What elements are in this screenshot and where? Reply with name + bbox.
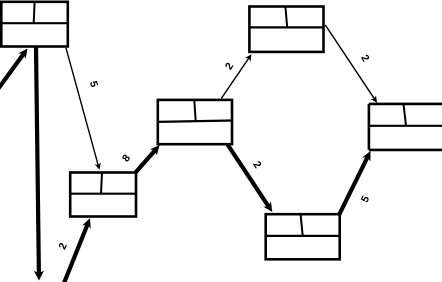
- label 2 (edge C->E): [253, 160, 262, 168]
- wire: edge from node A straight down off-screen (thick): [34, 47, 44, 281]
- wire: edge B -> C (thick, label 8): [136, 145, 160, 172]
- node B (mid-left task box): [70, 173, 136, 217]
- label 8 (edge B->C): [121, 154, 130, 163]
- wire: edge into node A from off-screen lower-left (thick): [0, 49, 28, 90]
- wire: edge into node B from off-screen bottom (thick, label 2): [64, 218, 91, 282]
- wire: edge A -> B (thin, label 5): [66, 48, 101, 170]
- label 2 (edge D->F): [361, 54, 370, 62]
- wire: edge C -> D (thin, label 2): [221, 54, 251, 98]
- label 5 (edge E->F): [361, 195, 370, 203]
- node C (center task box): [158, 100, 232, 144]
- node E (bottom-center task box): [266, 214, 340, 259]
- node F (right task box, clipped at image edge): [369, 104, 442, 150]
- label 5 (edge A->B): [90, 80, 98, 87]
- label 2 (edge C->D): [225, 62, 234, 70]
- wire: edge E -> F (thick, label 5): [339, 151, 371, 215]
- wire: edge C -> E (thick, label 2): [228, 145, 273, 213]
- label 2 (edge into B): [58, 242, 67, 250]
- wire: edge D -> F (thin, label 2): [325, 25, 377, 103]
- node A (top-left task box): [1, 2, 68, 47]
- node D (top-center task box): [249, 7, 323, 52]
